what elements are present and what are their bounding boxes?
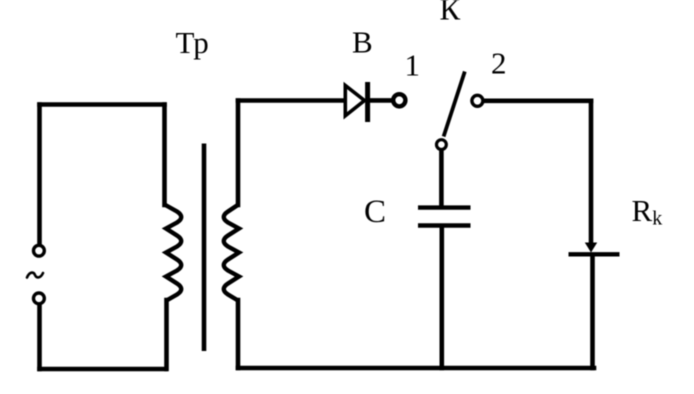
terminal 1 circle <box>393 94 405 106</box>
wire secondary left vertical lower <box>236 300 241 368</box>
source terminal upper circle <box>34 245 45 256</box>
svg-text:С: С <box>364 194 386 230</box>
capacitor C top plate <box>418 205 471 209</box>
diode V cathode bar <box>365 82 370 122</box>
svg-text:К: К <box>440 0 461 27</box>
wire secondary top to diode <box>238 98 344 103</box>
switch K lever <box>444 72 465 137</box>
transformer core <box>202 144 207 352</box>
wire terminal 2 to right corner <box>485 99 592 104</box>
wire secondary left vertical upper <box>236 101 241 206</box>
svg-text:2: 2 <box>491 46 507 81</box>
wire primary bottom horizontal <box>40 367 166 372</box>
wire diode to terminal 1 <box>370 98 392 103</box>
diode V triangle <box>345 86 364 116</box>
wire switch common down to capacitor <box>439 151 444 205</box>
svg-text:В: В <box>352 25 373 60</box>
svg-text:Тр: Тр <box>176 25 209 60</box>
svg-text:Rk: Rk <box>632 193 663 229</box>
AC tilde symbol <box>27 273 43 278</box>
wire primary top horizontal <box>40 102 165 107</box>
switch K common circle <box>437 140 447 150</box>
wire primary right vertical lower <box>164 300 169 369</box>
transformer Tp primary winding <box>165 205 182 301</box>
wire primary right vertical upper <box>162 105 167 206</box>
source terminal lower circle <box>34 293 45 304</box>
wire primary left vertical upper <box>37 105 42 244</box>
capacitor C bottom plate <box>418 223 471 227</box>
load Rk arrowhead <box>585 243 597 253</box>
wire right branch lower vertical <box>590 256 595 368</box>
transformer Tp secondary winding <box>224 205 239 301</box>
terminal 2 circle <box>472 95 483 106</box>
wire secondary bottom horizontal <box>238 366 594 371</box>
svg-text:1: 1 <box>405 48 421 83</box>
wire primary left vertical lower <box>37 306 42 370</box>
wire capacitor bottom to bottom wire <box>439 228 444 369</box>
wire right branch upper vertical <box>589 101 594 242</box>
load Rk bar <box>569 252 620 256</box>
